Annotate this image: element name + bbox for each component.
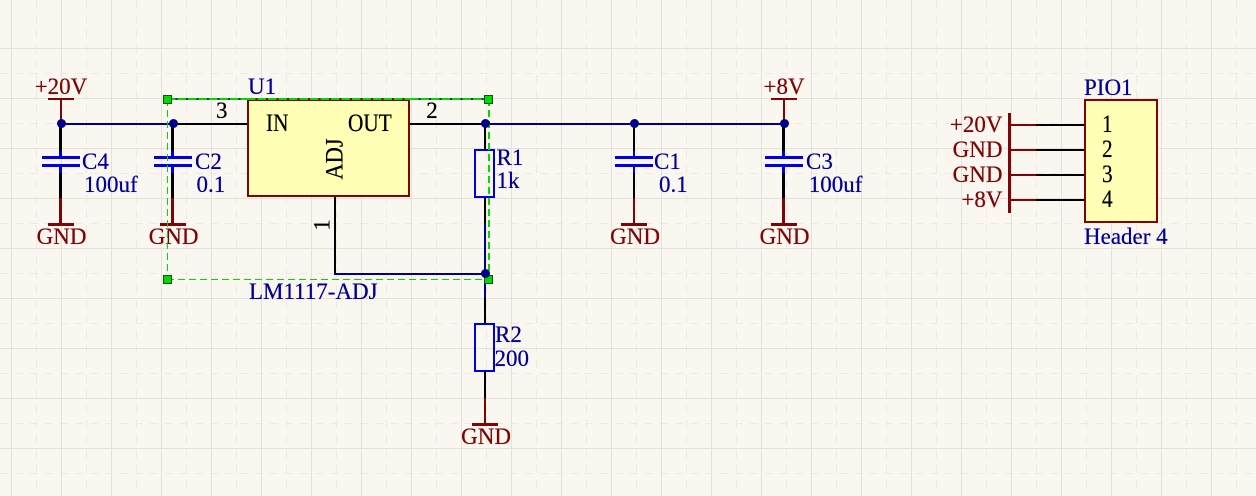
wire [782, 124, 785, 151]
pin 1 [1036, 124, 1084, 127]
wire [59, 173, 62, 198]
wire [484, 274, 487, 298]
power port GND [953, 163, 1003, 186]
op-amp U1 body [247, 99, 410, 197]
wire [484, 198, 487, 223]
resistor R1 [474, 149, 495, 199]
wire [633, 124, 636, 151]
pin 1 ADJ [334, 197, 337, 275]
junction [630, 119, 639, 128]
power port +8V [764, 75, 805, 98]
capacitor C4 [59, 151, 62, 157]
capacitor C2 [171, 151, 174, 157]
power bar [1008, 113, 1011, 213]
ground [633, 198, 636, 223]
junction [780, 119, 789, 128]
junction [57, 119, 66, 128]
selection handle [484, 275, 493, 284]
ground [484, 398, 487, 423]
ground [171, 198, 174, 223]
comment LM1117-ADJ [249, 280, 378, 303]
power port +20V [35, 75, 88, 98]
designator PIO1 [1084, 76, 1133, 99]
wire [171, 124, 174, 151]
junction [481, 119, 490, 128]
pin 2 OUT [410, 123, 485, 126]
wire bus left [61, 123, 173, 126]
pin 2 [1036, 149, 1084, 152]
wire [59, 124, 62, 151]
wire [782, 173, 785, 198]
selection dashed right [488, 99, 490, 280]
power port +8V [961, 188, 1002, 211]
power port GND [953, 138, 1003, 161]
selection dashed top [167, 98, 247, 100]
ground [782, 198, 785, 223]
pin 4 [1036, 199, 1084, 202]
junction [169, 119, 178, 128]
junction [481, 269, 490, 278]
wire ADJ feedback [334, 273, 486, 276]
designator U1 [248, 75, 276, 98]
pin 3 IN [173, 123, 247, 126]
selection handle [163, 275, 172, 284]
wire [484, 372, 487, 398]
capacitor C1 [633, 151, 636, 157]
capacitor C3 [782, 151, 785, 157]
comment Header 4 [1084, 225, 1168, 248]
power port +20V [950, 113, 1003, 136]
wire [633, 173, 636, 198]
wire [171, 173, 174, 198]
resistor R2 [474, 323, 495, 373]
selection dashed left [167, 99, 169, 280]
connector PIO1 body [1084, 99, 1158, 223]
ground [59, 198, 62, 223]
wire [484, 124, 487, 149]
wire bus right [485, 123, 784, 126]
selection dashed bottom [167, 279, 489, 281]
selection handle [163, 95, 172, 104]
selection handle [484, 95, 493, 104]
pin 3 [1036, 174, 1084, 177]
